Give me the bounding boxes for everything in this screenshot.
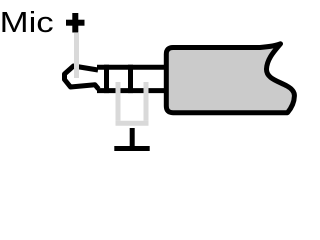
wire sleeve to ground bus <box>144 82 149 121</box>
wire ring to ground bus <box>116 82 121 121</box>
insulator ring 2 <box>128 65 133 93</box>
barrel bottom edge <box>97 88 166 93</box>
insulator ring 1 <box>104 65 109 93</box>
plug body (handle) <box>166 44 294 113</box>
wire Mic+ to tip <box>74 33 79 78</box>
ground bus bar <box>116 121 149 126</box>
barrel top edge <box>97 65 166 70</box>
plus sign of Mic + label <box>66 13 85 33</box>
svg-text:Mic: Mic <box>0 6 54 39</box>
plug tip <box>65 66 99 89</box>
ground symbol <box>114 128 149 149</box>
